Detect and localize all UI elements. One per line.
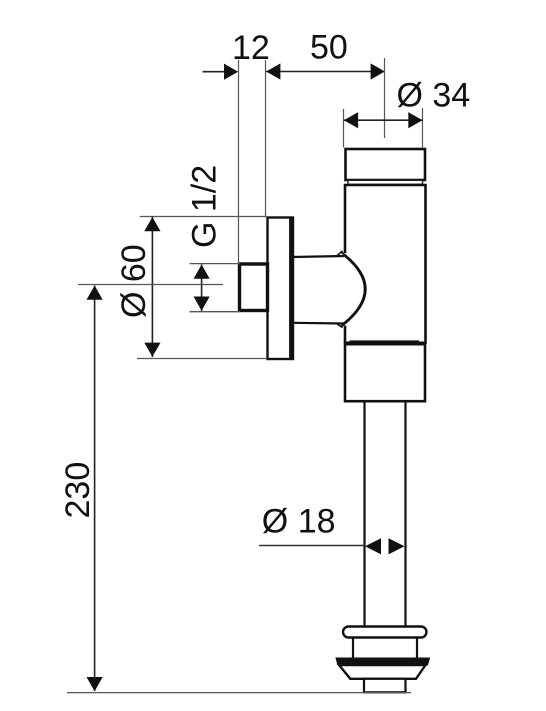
leader arrow line for 12 bbox=[203, 71, 229, 73]
arrowhead d18 right bbox=[389, 538, 405, 554]
cap groove strip bbox=[348, 180, 423, 184]
dimension line d34 bbox=[344, 119, 423, 121]
dimension line G12 bbox=[201, 264, 203, 311]
inlet pipe bottom wall bbox=[293, 322, 344, 325]
arrowhead 50 right bbox=[371, 63, 385, 79]
svg-text:230: 230 bbox=[59, 462, 97, 519]
lower flange capsule bbox=[343, 627, 427, 638]
arrowhead 230 top bbox=[87, 286, 103, 300]
extension line d60 top bbox=[140, 216, 268, 218]
extension line G12 top bbox=[190, 263, 241, 265]
fitting taper cone bbox=[339, 665, 426, 679]
fitting neck right bbox=[416, 638, 418, 659]
dimension line d60 bbox=[151, 217, 153, 357]
extension line 12 left bbox=[238, 60, 240, 263]
extension line d34 left bbox=[343, 109, 345, 148]
extension line d60 bottom bbox=[137, 358, 267, 360]
svg-text:G 1/2: G 1/2 bbox=[186, 165, 224, 248]
valve top cap bbox=[346, 149, 426, 180]
d18 leader line bbox=[259, 545, 365, 547]
fitting neck left bbox=[352, 638, 354, 659]
arrowhead d18 left bbox=[365, 538, 381, 554]
wall rosette flange bbox=[268, 218, 294, 360]
junction dome bottom tick bbox=[336, 323, 343, 327]
inlet spigot G1/2 bbox=[240, 264, 268, 311]
centerline pipe axis top bbox=[384, 58, 386, 138]
inlet pipe top wall bbox=[293, 256, 344, 257]
junction dome inner bbox=[344, 256, 365, 324]
dimension line 50 bbox=[266, 71, 385, 73]
valve lower base bbox=[345, 344, 425, 401]
extension line d34 right bbox=[422, 108, 424, 148]
arrowhead G12 up bbox=[194, 265, 210, 279]
bottom extension line bbox=[67, 692, 411, 694]
rosette right edge shading bbox=[289, 218, 292, 359]
arrowhead d34 right bbox=[408, 112, 422, 128]
dimension line 230 bbox=[94, 286, 96, 692]
bottom outlet spigot bbox=[364, 679, 406, 693]
valve main body bbox=[345, 185, 426, 343]
extension line G12 bottom bbox=[190, 311, 241, 313]
body bottom thick separator bbox=[350, 340, 420, 344]
arrowhead d60 bottom bbox=[144, 343, 160, 357]
junction dome outer bbox=[341, 252, 366, 328]
extension line 12 right bbox=[265, 60, 267, 217]
leader arrowhead 12 bbox=[224, 64, 238, 80]
arrowhead G12 down bbox=[194, 297, 210, 311]
svg-text:50: 50 bbox=[310, 29, 348, 67]
outlet pipe wall right bbox=[404, 401, 406, 626]
junction dome top tick bbox=[336, 251, 343, 257]
svg-text:12: 12 bbox=[232, 29, 270, 67]
arrowhead 230 bottom bbox=[87, 677, 103, 691]
outlet pipe wall left bbox=[363, 401, 365, 626]
svg-text:Ø 34: Ø 34 bbox=[397, 77, 471, 115]
inlet axis extension line bbox=[78, 284, 223, 286]
fitting dark collar band bbox=[336, 658, 430, 665]
svg-text:Ø 60: Ø 60 bbox=[115, 244, 153, 318]
arrowhead 50 left bbox=[266, 63, 280, 79]
svg-text:Ø 18: Ø 18 bbox=[262, 503, 336, 541]
arrowhead d60 top bbox=[144, 217, 160, 231]
arrowhead d34 left bbox=[344, 112, 358, 128]
